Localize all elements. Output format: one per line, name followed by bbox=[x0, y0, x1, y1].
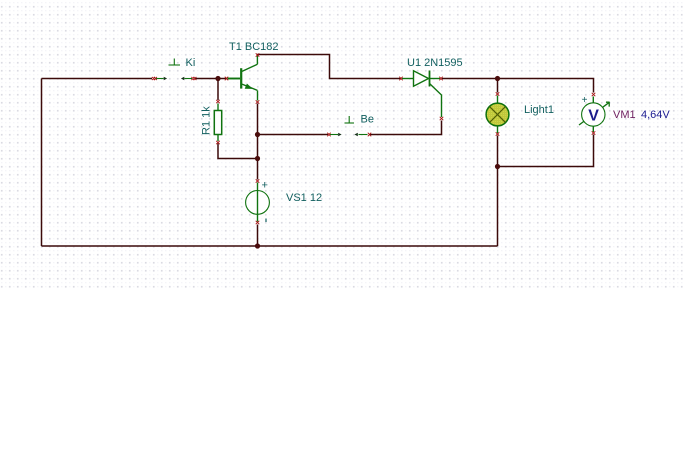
svg-text:VS1 12: VS1 12 bbox=[286, 192, 322, 204]
pin mark voltmeter bottom bbox=[592, 131, 596, 134]
pin mark anode bbox=[399, 77, 402, 81]
pin mark Ki right bbox=[191, 77, 196, 80]
node anode/lamp top (junction dot) bbox=[495, 76, 500, 81]
svg-text:V: V bbox=[588, 107, 599, 124]
svg-text:+: + bbox=[582, 95, 588, 106]
wire VS1 top bbox=[257, 159, 259, 180]
node lamp bottom (junction dot) bbox=[495, 164, 500, 169]
svg-text:U1 2N1595: U1 2N1595 bbox=[407, 57, 463, 69]
svg-text:T1 BC182: T1 BC182 bbox=[229, 41, 279, 53]
node base (junction dot) bbox=[215, 76, 220, 81]
wire lamp bottom bbox=[497, 136, 499, 167]
pin mark lamp bottom bbox=[496, 132, 500, 135]
svg-text:Ki: Ki bbox=[186, 57, 196, 69]
wire emitter column bbox=[257, 104, 259, 159]
svg-text:Be: Be bbox=[361, 114, 374, 126]
wire collector route bbox=[258, 55, 401, 79]
node R1 bottom (junction dot) bbox=[255, 156, 260, 161]
wire thyristor cathode to lamp node bbox=[442, 78, 498, 80]
switch Be bbox=[330, 116, 368, 136]
wire lamp node to voltmeter top bbox=[498, 79, 594, 93]
wire top-left horizontal bbox=[42, 78, 153, 80]
wire R1 bottom to emitter column bbox=[218, 144, 258, 159]
wire switch Be to thyristor gate bbox=[370, 121, 442, 135]
voltmeter VM1 bbox=[579, 95, 610, 132]
svg-text:Light1: Light1 bbox=[524, 104, 554, 116]
node emitter (junction dot) bbox=[255, 132, 260, 137]
pin mark gate bbox=[440, 117, 444, 120]
pin mark voltmeter top bbox=[592, 93, 596, 96]
pin mark R1 top bbox=[216, 100, 220, 103]
pin mark VS1 bottom bbox=[256, 221, 260, 224]
resistor R1 bbox=[214, 104, 221, 142]
wire bottom rail bbox=[42, 245, 498, 247]
svg-text:4,64V: 4,64V bbox=[641, 109, 670, 121]
wire base node to R1 top bbox=[217, 79, 219, 101]
pin mark Ki left bbox=[152, 77, 157, 80]
lamp Light1 bbox=[486, 96, 509, 134]
pin mark collector bbox=[256, 53, 260, 56]
source VS1 bbox=[246, 180, 270, 223]
pin mark Be right bbox=[368, 133, 371, 137]
node VS1 bottom (junction dot) bbox=[255, 243, 260, 248]
pin mark Be left bbox=[327, 133, 330, 137]
thyristor U1 bbox=[402, 71, 442, 118]
pin mark emitter bbox=[256, 100, 260, 103]
transistor Q T1 bbox=[228, 55, 258, 100]
switch Ki bbox=[156, 59, 193, 81]
wire emitter node to switch Be bbox=[258, 134, 329, 136]
wire lamp node to bottom rail bbox=[497, 167, 499, 247]
pin mark cathode bbox=[439, 77, 442, 81]
wire lamp bottom node to voltmeter bottom bbox=[498, 135, 594, 167]
wire left rail vertical bbox=[41, 79, 43, 247]
pin mark base bbox=[225, 77, 228, 81]
wire lamp top bbox=[497, 79, 499, 93]
pin mark R1 bottom bbox=[216, 141, 220, 144]
wire switch Ki to base node bbox=[195, 78, 228, 80]
wire VS1 bottom bbox=[257, 225, 259, 247]
pin mark lamp top bbox=[496, 92, 500, 95]
svg-text:R1 1k: R1 1k bbox=[201, 106, 213, 135]
pin mark VS1 top bbox=[256, 179, 260, 182]
svg-text:VM1: VM1 bbox=[613, 109, 636, 121]
svg-text:+: + bbox=[262, 180, 268, 192]
